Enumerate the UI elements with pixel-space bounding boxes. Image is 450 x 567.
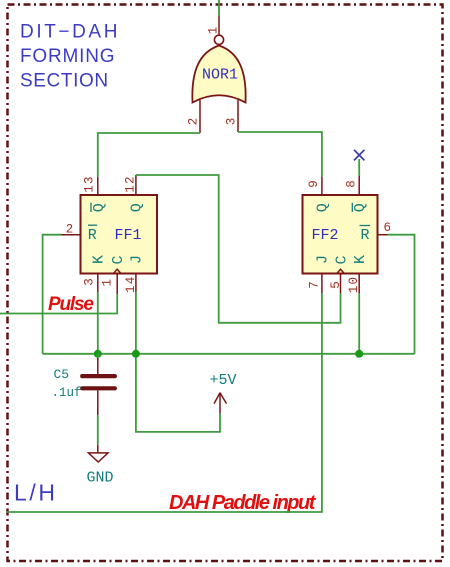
wire DAH paddle input to FF2 pin 7 xyxy=(7,293,322,512)
svg-text:C: C xyxy=(333,255,350,264)
wire NOR1 output to top edge xyxy=(218,0,220,16)
svg-text:6: 6 xyxy=(384,221,392,235)
FF2 clock edge marker xyxy=(337,269,345,274)
svg-text:DIT−DAH: DIT−DAH xyxy=(20,22,120,43)
wire FF2 pin 10 to bus xyxy=(358,293,360,354)
FF1 pin name C xyxy=(110,255,127,264)
FF1 pin 14 xyxy=(124,274,138,294)
wire C5 to GND xyxy=(97,415,99,445)
wire FF1 pin 2 to bus xyxy=(43,235,61,354)
FF2 pin 8 xyxy=(345,176,360,195)
FF1 clock edge marker xyxy=(113,269,121,274)
label DAH Paddle input xyxy=(169,492,317,514)
svg-text:C: C xyxy=(110,255,127,264)
svg-text:1: 1 xyxy=(207,27,221,35)
svg-text:C5: C5 xyxy=(54,367,70,382)
svg-text:J: J xyxy=(315,255,332,264)
junction bus / +5V xyxy=(132,350,140,358)
svg-text:9: 9 xyxy=(307,180,321,188)
flip-flop FF1 body xyxy=(81,195,158,274)
FF1 pin name J xyxy=(129,255,146,264)
svg-text:FORMING: FORMING xyxy=(20,46,115,67)
svg-text:Q: Q xyxy=(315,203,332,212)
svg-text:13: 13 xyxy=(83,175,97,192)
svg-text:R: R xyxy=(360,227,369,244)
FF2 pin name C xyxy=(333,255,350,264)
svg-text:Q: Q xyxy=(129,203,146,212)
capacitor C5 xyxy=(52,354,115,415)
svg-text:FF2: FF2 xyxy=(311,227,338,244)
FF1 pin 3 xyxy=(83,274,98,293)
FF1 pin name Q xyxy=(129,203,146,212)
svg-text:Q: Q xyxy=(352,203,369,212)
wire FF1 pin 14 to bus xyxy=(135,292,137,354)
FF1 pin 12 xyxy=(124,175,138,195)
wire Pulse input to FF1 pin 1 xyxy=(0,294,117,314)
svg-text:10: 10 xyxy=(347,276,361,293)
svg-text:L/H: L/H xyxy=(14,480,58,506)
no-connect X on FF2 pin 8 xyxy=(354,150,364,161)
label Pulse xyxy=(48,294,94,315)
flip-flop FF2 body xyxy=(303,195,378,274)
svg-text:1: 1 xyxy=(101,279,115,287)
svg-text:K: K xyxy=(91,255,108,264)
svg-text:8: 8 xyxy=(345,180,359,188)
ground symbol GND xyxy=(87,445,114,487)
FF1 pin name K xyxy=(91,255,108,264)
svg-text:R: R xyxy=(88,227,97,244)
FF2 pin 5 xyxy=(329,274,343,294)
FF1 pin name Rbar xyxy=(88,225,97,244)
label L/H xyxy=(14,480,58,506)
svg-text:.1uf: .1uf xyxy=(52,386,82,400)
pin 3 NOR1 input xyxy=(225,100,239,132)
wire FF2 pin 6 to bus xyxy=(388,235,415,354)
power symbol +5V xyxy=(209,372,236,414)
FF2 pin name Q xyxy=(315,203,332,212)
svg-text:12: 12 xyxy=(124,175,138,192)
junction bus / C5 xyxy=(94,350,102,358)
svg-text:+5V: +5V xyxy=(209,372,236,389)
NOR gate NOR1 xyxy=(192,35,245,102)
FF1 pin 2 xyxy=(61,222,81,236)
pin 1 NOR1 output xyxy=(207,16,221,35)
svg-text:K: K xyxy=(352,255,369,264)
wire NOR1 pin2 to FF1 pin13 xyxy=(98,133,200,177)
FF2 pin 7 xyxy=(308,274,322,294)
svg-text:FF1: FF1 xyxy=(114,227,141,244)
svg-text:2: 2 xyxy=(187,118,201,126)
svg-text:NOR1: NOR1 xyxy=(202,67,238,84)
svg-text:5: 5 xyxy=(329,281,343,289)
FF2 pin 6 xyxy=(378,221,392,235)
svg-text:GND: GND xyxy=(87,470,114,487)
svg-text:3: 3 xyxy=(83,278,97,286)
wire FF1 pin 3 to bus xyxy=(97,292,99,354)
wire FF1 pin 12 to FF2 pin 5 xyxy=(136,175,341,323)
junction bus / FF2 pin 10 xyxy=(355,350,363,358)
svg-text:J: J xyxy=(129,255,146,264)
svg-text:14: 14 xyxy=(124,276,138,293)
wire NOR1 pin3 to FF2 pin9 xyxy=(238,132,322,177)
FF2 pin name K xyxy=(352,255,369,264)
FF2 pin name Rbar xyxy=(360,226,371,245)
wire horizontal bus xyxy=(43,353,415,355)
svg-text:SECTION: SECTION xyxy=(20,71,109,92)
svg-text:Q: Q xyxy=(91,203,108,212)
label DIT-DAH FORMING SECTION xyxy=(20,22,120,92)
pin 2 NOR1 input xyxy=(187,100,201,133)
wire bus to +5V xyxy=(136,354,220,432)
svg-text:7: 7 xyxy=(308,281,322,289)
FF2 pin name Qbar xyxy=(352,203,369,213)
FF2 pin 9 xyxy=(307,177,322,195)
FF2 pin 10 xyxy=(347,274,361,294)
svg-text:DAH Paddle input: DAH Paddle input xyxy=(169,492,317,514)
svg-text:3: 3 xyxy=(225,118,239,126)
FF1 pin 13 xyxy=(83,175,98,195)
wire FF2 pin 8 to no-connect xyxy=(358,159,360,176)
FF1 pin name Qbar xyxy=(91,203,108,213)
FF1 pin 1 xyxy=(101,274,118,295)
FF2 pin name J xyxy=(315,255,332,264)
svg-text:2: 2 xyxy=(66,222,74,236)
svg-text:Pulse: Pulse xyxy=(48,294,94,315)
